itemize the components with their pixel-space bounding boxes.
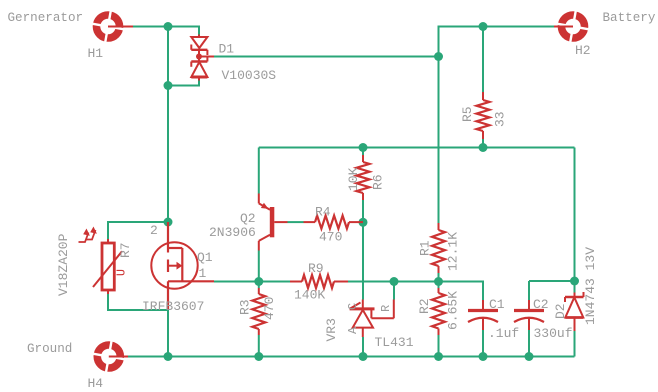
svg-text:470: 470 xyxy=(262,297,277,320)
svg-text:D1: D1 xyxy=(219,42,235,57)
junction ground VR3 xyxy=(359,352,368,361)
svg-text:330uf: 330uf xyxy=(534,326,573,341)
svg-text:12.1K: 12.1K xyxy=(446,232,461,271)
junction H1 node xyxy=(164,22,173,31)
wire battery top xyxy=(439,27,556,224)
svg-text:Q2: Q2 xyxy=(240,211,256,226)
wire R5 bottom xyxy=(482,139,484,148)
svg-text:R9: R9 xyxy=(308,261,324,276)
varistor R7 V18ZA20P xyxy=(79,227,129,295)
svg-text:R5: R5 xyxy=(460,106,475,122)
svg-text:A: A xyxy=(346,326,360,334)
svg-text:D2: D2 xyxy=(553,303,568,319)
resistor R9 xyxy=(290,275,348,288)
wire R3 bottom lead xyxy=(258,335,260,357)
junction R4/R6 node xyxy=(359,218,368,227)
wire Q2 collector down xyxy=(258,251,260,282)
wire C2 top lead xyxy=(528,281,530,300)
svg-text:C: C xyxy=(346,303,360,310)
junction R5 top xyxy=(479,22,488,31)
svg-text:140K: 140K xyxy=(294,288,325,303)
junction ground Q1 xyxy=(164,352,173,361)
resistor R3 xyxy=(252,288,265,335)
junction ground R2 xyxy=(434,352,443,361)
resistor R5 xyxy=(477,92,490,139)
svg-text:V10030S: V10030S xyxy=(222,68,277,83)
svg-text:33: 33 xyxy=(493,111,508,127)
wire right loop down to C2/D2 node xyxy=(529,148,575,282)
svg-text:1: 1 xyxy=(199,266,207,281)
wire R6 bottom to R4 node xyxy=(362,200,364,222)
wire varistor top to Q1 gate node xyxy=(108,222,168,239)
junction Q1 gate node xyxy=(164,218,173,227)
mount pad H1 (Generator) xyxy=(89,8,133,46)
junction ground R3 xyxy=(254,352,263,361)
wire Q2 base to R4 xyxy=(288,221,304,223)
wire D2 top lead xyxy=(574,281,576,293)
svg-text:V18ZA20P: V18ZA20P xyxy=(56,233,71,296)
mount pad H4 (Ground) xyxy=(90,338,128,376)
svg-text:R3: R3 xyxy=(238,299,253,315)
diode D2 zener 1N4743 xyxy=(565,292,584,331)
wire R2 bottom lead xyxy=(438,335,440,357)
capacitor C2 330uf xyxy=(514,300,544,330)
transistor Q2 2N3906 PNP xyxy=(259,194,288,251)
svg-text:Battery: Battery xyxy=(603,11,656,25)
svg-text:IRFB3607: IRFB3607 xyxy=(142,299,204,314)
junction ground C2 xyxy=(525,352,534,361)
svg-text:Ground: Ground xyxy=(27,342,72,356)
svg-text:H4: H4 xyxy=(88,376,104,391)
junction VR3 ref node xyxy=(390,277,399,286)
svg-text:R6: R6 xyxy=(371,174,386,190)
wire feedback node R9 to C1 xyxy=(348,282,483,301)
wire D2 bottom to ground xyxy=(574,331,576,357)
svg-text:R1: R1 xyxy=(418,240,433,256)
wire D1 bottom to left rail xyxy=(168,81,199,86)
junction Q1 source/R3/R9 xyxy=(254,277,263,286)
svg-text:U: U xyxy=(116,269,129,276)
resistor R2 xyxy=(432,288,445,335)
svg-text:VR3: VR3 xyxy=(324,318,339,341)
svg-text:1N4743 13V: 1N4743 13V xyxy=(583,247,598,325)
wire C1 bottom lead xyxy=(482,330,484,357)
transistor Q1 IRFB3607 MOSFET xyxy=(151,222,214,310)
wire Q1 source node left xyxy=(214,281,290,283)
svg-text:.1uf: .1uf xyxy=(488,326,519,341)
wire VR3 ref branch xyxy=(393,282,395,300)
svg-text:6.65K: 6.65K xyxy=(446,291,461,330)
wire varistor bottom to Q1 source lead xyxy=(108,294,168,310)
resistor R1 xyxy=(432,223,445,273)
junction ground C1 xyxy=(479,352,488,361)
svg-text:TL431: TL431 xyxy=(375,335,414,350)
svg-text:H1: H1 xyxy=(88,46,104,61)
wire R3 top lead xyxy=(258,282,260,289)
junction C2/D2 top node xyxy=(570,277,579,286)
diode D1 (dual TVS V10030S) xyxy=(191,35,214,81)
wire H1 to D1 top xyxy=(133,27,199,35)
svg-text:R4: R4 xyxy=(315,205,331,220)
svg-text:R: R xyxy=(379,305,393,312)
wire R1 bottom lead xyxy=(438,273,440,282)
resistor R4 xyxy=(304,216,364,229)
junction D1 bottom node xyxy=(164,81,173,90)
junction R6 top xyxy=(359,143,368,152)
svg-text:R7: R7 xyxy=(118,242,133,258)
wire Q1 source down to ground xyxy=(167,310,169,357)
wire ground rail xyxy=(128,356,575,358)
svg-text:R2: R2 xyxy=(417,298,432,314)
junction R5 bottom xyxy=(479,143,488,152)
svg-text:C1: C1 xyxy=(489,297,505,312)
junction battery/D1 node xyxy=(434,52,443,61)
mount pad H2 (Battery) xyxy=(554,8,592,46)
svg-text:H2: H2 xyxy=(575,43,591,58)
wire D1 output to battery rail xyxy=(214,56,439,58)
svg-text:Gernerator: Gernerator xyxy=(8,11,84,25)
wire R2 top lead xyxy=(438,282,440,289)
junction R1/R2 node xyxy=(434,277,443,286)
regulator VR3 TL431 xyxy=(350,300,394,338)
wire VR3 anode to ground xyxy=(362,337,364,357)
svg-text:10K: 10K xyxy=(346,167,361,191)
svg-text:C2: C2 xyxy=(533,297,549,312)
svg-text:Q1: Q1 xyxy=(197,250,213,265)
resistor R6 xyxy=(357,155,370,200)
wire R6 top lead xyxy=(362,148,364,156)
svg-text:2N3906: 2N3906 xyxy=(209,225,256,240)
wire left rail H1 junction down to Q1 gate node xyxy=(167,27,169,223)
svg-text:470: 470 xyxy=(319,230,342,245)
wire mid rail y147 xyxy=(259,147,575,149)
capacitor C1 .1uf xyxy=(468,300,498,330)
wire C2 bottom lead xyxy=(528,330,530,357)
svg-text:2: 2 xyxy=(150,223,158,238)
wire Q2 emitter up xyxy=(258,148,260,194)
wire R4 node down to VR3 cathode xyxy=(362,222,364,299)
wire R5 top branch xyxy=(482,27,484,93)
